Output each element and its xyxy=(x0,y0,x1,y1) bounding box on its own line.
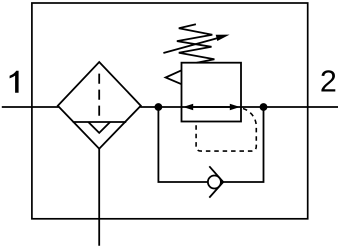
svg-text:2: 2 xyxy=(320,65,337,99)
adjustment arrow shaft xyxy=(163,37,222,53)
regulator flow arrowhead left xyxy=(183,104,193,110)
regulator U1 (body) xyxy=(182,63,242,122)
node junction right xyxy=(260,103,268,111)
port label 1 xyxy=(10,71,19,93)
enclosure (assembly boundary) xyxy=(32,3,308,219)
separator baffle line xyxy=(73,121,127,123)
pilot line (dashed feedback) xyxy=(196,109,256,152)
check valve seat xyxy=(209,166,223,197)
wire bypass branch (left down, bottom, right up) xyxy=(158,107,263,182)
wire main flow line port 1 to filter xyxy=(2,106,59,108)
check valve V1 (circle) xyxy=(208,176,221,189)
spring (adjustable, zigzag) xyxy=(177,24,215,63)
relief vent triangle xyxy=(166,70,182,84)
regulator flow arrow shaft xyxy=(190,106,233,108)
condensate drain V xyxy=(88,122,110,133)
adjustment arrowhead xyxy=(216,35,230,41)
filter F1 (diamond body) xyxy=(58,62,141,149)
wire drain line xyxy=(98,149,100,246)
wire main flow line filter to port 2 xyxy=(140,106,338,108)
filter element (dashed line) xyxy=(98,74,100,122)
regulator flow arrowhead right xyxy=(230,104,240,110)
node junction left xyxy=(155,103,163,111)
